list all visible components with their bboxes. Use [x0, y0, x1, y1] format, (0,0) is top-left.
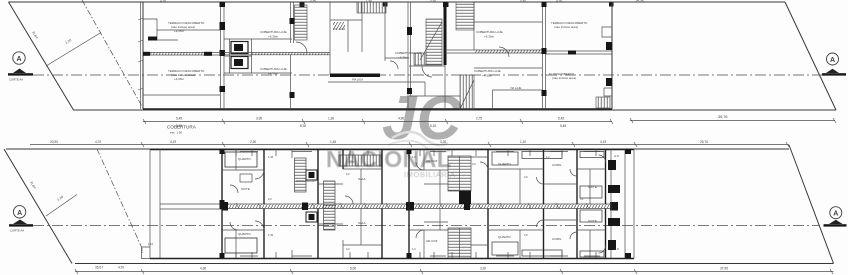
svg-text:4,2: 4,2	[346, 172, 350, 176]
lot corner dimension branch 1,10	[46, 33, 101, 67]
svg-text:4,19: 4,19	[170, 140, 176, 144]
section marker A right-bottom	[824, 207, 847, 227]
svg-text:COBERTURA LAJE: COBERTURA LAJE	[474, 69, 501, 73]
beds / furniture front left	[225, 152, 257, 167]
middle unit walls front	[409, 149, 448, 204]
door arc under stair	[422, 66, 432, 77]
svg-text:1,45: 1,45	[268, 155, 274, 159]
bottom edge	[150, 258, 634, 260]
svg-text:(nao incluso area): (nao incluso area)	[552, 76, 576, 80]
building top edge	[143, 1, 785, 3]
svg-text:+4,05m: +4,05m	[174, 29, 185, 33]
interior wall y=95 left	[143, 94, 220, 96]
svg-text:CORTE AA: CORTE AA	[10, 229, 24, 233]
corridor double wall (party wall between rows)	[222, 204, 614, 209]
bath core walls left unit	[224, 39, 292, 73]
svg-text:CORTE AA: CORTE AA	[9, 78, 23, 82]
svg-text:+4,30m: +4,30m	[484, 35, 495, 39]
svg-text:COBERTURA LAJE: COBERTURA LAJE	[260, 67, 287, 71]
svg-text:PIA LIGA: PIA LIGA	[352, 78, 363, 82]
svg-text:AR.COZ: AR.COZ	[426, 159, 438, 163]
svg-text:3,20: 3,20	[440, 140, 446, 144]
svg-text:esc. 1:50: esc. 1:50	[170, 131, 183, 135]
section line A-A (bottom band)	[33, 225, 820, 227]
building outline bottom band	[150, 149, 634, 151]
stair right back	[448, 228, 471, 258]
left main wall x=222	[221, 149, 223, 259]
bath fixtures	[231, 42, 248, 54]
door arcs bottom band	[230, 155, 606, 253]
building outline (top band)	[143, 2, 612, 109]
svg-text:QUARTO: QUARTO	[498, 162, 511, 166]
wall x=409 top band	[408, 2, 411, 109]
svg-text:A: A	[833, 211, 838, 218]
svg-text:QUARTO: QUARTO	[238, 232, 251, 236]
svg-text:25,76: 25,76	[700, 140, 708, 144]
lot left solid diagonal (bottom band)	[4, 149, 72, 264]
svg-text:4,30: 4,30	[200, 267, 206, 271]
lot bottom line	[74, 109, 837, 111]
svg-text:1,3: 1,3	[412, 247, 416, 251]
scattered dim ticks bottom band interior	[268, 155, 584, 251]
svg-text:5,45: 5,45	[560, 124, 566, 128]
stair hatch top-center	[357, 2, 386, 13]
svg-text:4,19: 4,19	[600, 140, 606, 144]
svg-text:QUARTO: QUARTO	[238, 157, 251, 161]
window double lines on top edge	[240, 151, 600, 153]
terrace text lower	[168, 69, 205, 81]
terrace divider wall	[143, 53, 221, 56]
right half walls front	[488, 149, 606, 204]
svg-text:4,90: 4,90	[398, 117, 404, 121]
section marker A left-top	[8, 52, 33, 82]
right terrace divider	[546, 51, 612, 54]
stair top horizontal	[339, 155, 381, 166]
svg-text:1,10: 1,10	[56, 195, 64, 202]
top edge junction blocks	[300, 2, 305, 7]
party wall x=222	[221, 2, 224, 109]
svg-text:35,07: 35,07	[95, 266, 103, 270]
lot bottom line	[75, 263, 834, 265]
lot top line (bottom band)	[6, 148, 789, 150]
svg-text:1,10: 1,10	[64, 38, 72, 45]
section line A-A (top band)	[33, 74, 823, 76]
terrace text upper	[168, 21, 205, 33]
thick party wall x=445	[444, 2, 447, 65]
svg-text:AR.COZ: AR.COZ	[426, 239, 438, 243]
right edge notches	[602, 27, 612, 96]
svg-text:4,2: 4,2	[346, 247, 350, 251]
svg-text:+4,30m: +4,30m	[268, 72, 279, 76]
cobertura laje labels left	[260, 30, 287, 76]
svg-text:35,76: 35,76	[718, 115, 728, 119]
svg-text:(nao incluso area): (nao incluso area)	[554, 25, 578, 29]
svg-text:1,45: 1,45	[268, 233, 274, 237]
kitchen counters	[522, 152, 562, 159]
svg-text:QUARTO: QUARTO	[498, 235, 511, 239]
svg-text:SUITE: SUITE	[241, 187, 250, 191]
svg-text:1,10: 1,10	[520, 140, 526, 144]
wall x=385	[385, 2, 409, 61]
svg-text:COZIN: COZIN	[552, 237, 561, 241]
door arc at stair foot	[296, 42, 307, 53]
svg-text:COBERTURA LAJE: COBERTURA LAJE	[395, 51, 422, 55]
dimension line below bottom band	[75, 271, 834, 273]
building bottom edge	[143, 108, 612, 110]
svg-text:+4,05m: +4,05m	[174, 77, 185, 81]
corridor wall right half	[445, 50, 544, 53]
section marker A right-top	[822, 53, 846, 76]
svg-text:3,0: 3,0	[472, 162, 476, 166]
svg-text:3,1: 3,1	[580, 197, 584, 201]
svg-text:20,90: 20,90	[50, 140, 58, 144]
stair center with diagonal	[426, 19, 442, 65]
svg-text:6,10: 6,10	[430, 124, 436, 128]
svg-text:31,84: 31,84	[31, 30, 39, 39]
svg-text:1,2: 1,2	[546, 155, 550, 159]
section marker A left-bottom	[9, 206, 33, 233]
lower mid wall y=82	[328, 82, 460, 96]
svg-text:5,45: 5,45	[558, 117, 564, 121]
beds right rooms	[492, 152, 518, 165]
svg-text:CIRCULACAO: CIRCULACAO	[296, 179, 316, 183]
svg-text:SUITE: SUITE	[588, 219, 597, 223]
svg-text:1,30: 1,30	[328, 117, 334, 121]
left edge dim ticks	[138, 18, 143, 90]
caixa hatch detail	[333, 22, 345, 30]
labels right units	[474, 30, 503, 78]
svg-text:COBERTURA: COBERTURA	[167, 125, 197, 130]
svg-text:SALA: SALA	[358, 177, 366, 181]
svg-text:5,45: 5,45	[176, 117, 182, 121]
svg-text:1,45: 1,45	[330, 140, 336, 144]
svg-text:4,70: 4,70	[95, 140, 101, 144]
svg-text:VIA LAJE: VIA LAJE	[510, 86, 522, 90]
lot left hidden diagonal (dash-dot)	[82, 0, 144, 109]
right unit lower stair	[460, 75, 474, 109]
upper terrace inner line	[157, 29, 220, 31]
dimension line above bottom band	[30, 144, 789, 146]
svg-text:31,84: 31,84	[29, 180, 37, 189]
lot right diagonal (bottom band)	[789, 145, 834, 264]
svg-text:8,30: 8,30	[300, 124, 306, 128]
tiny dims above top line	[160, 0, 644, 3]
svg-text:+4,30m: +4,30m	[268, 35, 279, 39]
stair landing dark	[459, 191, 471, 204]
lot left solid diagonal	[9, 2, 74, 110]
middle unit walls back	[409, 209, 448, 259]
left step corner detail	[143, 19, 178, 40]
room labels bottom band	[238, 154, 619, 251]
extra wall stubs along edges	[236, 149, 596, 258]
svg-text:SALA: SALA	[358, 221, 366, 225]
svg-text:2,6: 2,6	[524, 233, 528, 237]
back row walls	[264, 209, 382, 259]
lot top line	[9, 1, 786, 3]
svg-text:A: A	[830, 57, 835, 64]
bath fixtures mid	[306, 170, 317, 180]
svg-text:2,30: 2,30	[250, 140, 256, 144]
svg-text:2,0: 2,0	[268, 197, 272, 201]
lower wall right unit	[493, 90, 543, 109]
svg-text:A: A	[17, 210, 22, 217]
svg-text:1,10: 1,10	[148, 242, 154, 246]
corner branch 1,10 (bottom band)	[46, 195, 77, 217]
window double lines on bottom edge	[240, 255, 600, 257]
corner dim marks at building left corner	[140, 242, 154, 253]
svg-text:4,70: 4,70	[118, 266, 124, 270]
watermark wave swoosh	[392, 132, 448, 145]
stair center	[324, 181, 336, 230]
dimension numbers top band	[176, 115, 728, 128]
thick wall under caixa	[330, 74, 380, 78]
dimension line below top band	[143, 121, 835, 122]
wall under stair	[409, 65, 445, 67]
front row walls	[264, 149, 382, 204]
right end walls	[611, 149, 634, 259]
svg-text:37,95: 37,95	[720, 267, 728, 271]
svg-text:A.S: A.S	[614, 247, 619, 251]
svg-text:1,3: 1,3	[412, 155, 416, 159]
svg-text:+4,30m: +4,30m	[398, 56, 409, 60]
right terrace labels	[549, 21, 588, 80]
door arc right unit	[499, 47, 509, 57]
svg-text:5,00: 5,00	[350, 267, 356, 271]
wall x=290-294	[291, 2, 294, 109]
left porch lines	[142, 149, 151, 259]
svg-text:2,6: 2,6	[524, 175, 528, 179]
svg-text:3,95: 3,95	[256, 117, 262, 121]
svg-text:+4,30m: +4,30m	[482, 74, 493, 78]
watermark JC logo	[326, 84, 462, 179]
mid wall with hatch (x 224-330)	[224, 53, 330, 55]
stair right front (double run)	[448, 156, 471, 191]
dimension numbers above	[50, 140, 708, 144]
svg-text:2,75: 2,75	[476, 117, 482, 121]
stair hatch x=294-307 top	[295, 5, 308, 40]
svg-text:COBERTURA LAJE: COBERTURA LAJE	[476, 30, 503, 34]
stair right unit top	[456, 2, 474, 30]
right unit inner walls	[474, 2, 542, 68]
svg-text:A: A	[16, 56, 21, 63]
stair upper-left	[295, 158, 307, 192]
lot right diagonal	[785, 2, 836, 110]
party wall x=544	[543, 2, 546, 109]
svg-text:A.S: A.S	[614, 154, 619, 158]
right half walls back	[488, 209, 606, 259]
svg-text:SUITE: SUITE	[588, 185, 597, 189]
right bottom stair marks	[596, 97, 610, 108]
svg-text:COBERTURA LAJE: COBERTURA LAJE	[260, 30, 287, 34]
porch interior	[160, 149, 222, 258]
corridor dim ticks	[236, 203, 589, 209]
lot left hidden diagonal dash-dot (bottom band)	[97, 149, 142, 247]
svg-text:3,20: 3,20	[480, 267, 486, 271]
svg-text:COZIN: COZIN	[552, 163, 561, 167]
party wall x=409	[408, 149, 410, 259]
svg-text:1,10: 1,10	[140, 247, 144, 253]
caixa d'agua walls	[330, 2, 362, 75]
